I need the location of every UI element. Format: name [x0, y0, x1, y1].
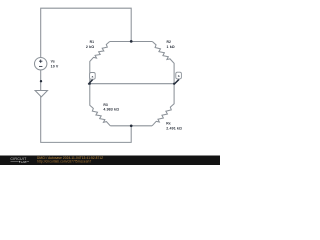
svg-text:R2: R2: [167, 40, 171, 44]
svg-text:10 V: 10 V: [51, 65, 59, 69]
svg-text:LAB: LAB: [21, 160, 27, 164]
svg-text:R1: R1: [90, 40, 94, 44]
svg-text:2 kΩ: 2 kΩ: [86, 45, 94, 49]
svg-text:Rx: Rx: [166, 121, 170, 125]
svg-text:http://circuitlab.com/c877f5ms: http://circuitlab.com/c877f5msseah7: [37, 159, 91, 163]
svg-text:Vs: Vs: [51, 59, 55, 63]
svg-text:1 kΩ: 1 kΩ: [167, 45, 175, 49]
svg-text:2.491 kΩ: 2.491 kΩ: [166, 127, 182, 131]
svg-text:b: b: [178, 74, 180, 78]
svg-text:4.983 kΩ: 4.983 kΩ: [103, 108, 119, 112]
